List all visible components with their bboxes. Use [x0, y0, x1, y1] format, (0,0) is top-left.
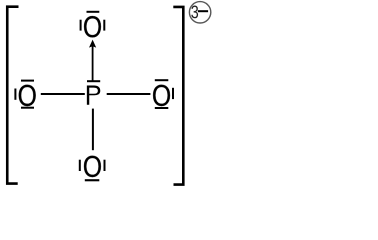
bond P to O-left	[41, 93, 85, 95]
atom O right	[153, 85, 170, 106]
arrow tail crossbar	[87, 80, 100, 82]
charge minus sign	[198, 10, 208, 12]
left bracket	[7, 7, 18, 184]
lone pair O-left top bar	[21, 80, 34, 82]
bond P to O-right	[107, 93, 151, 95]
lone pair O-left left bar	[14, 89, 16, 100]
lone pair O-top right bar	[103, 20, 105, 31]
lone pair O-bottom right bar	[104, 160, 106, 171]
lone pair O-right right bar	[172, 88, 174, 99]
lone pair O-right bottom bar	[155, 107, 169, 109]
bond P to O-bottom	[92, 109, 94, 151]
right bracket	[173, 7, 183, 185]
atom O bottom	[84, 156, 101, 177]
arrow head	[89, 40, 96, 48]
lone pair O-top upper bar	[87, 11, 100, 13]
lone pair O-top left bar	[80, 20, 82, 31]
atom O left	[19, 85, 36, 106]
lone pair O-left bottom bar	[21, 107, 34, 109]
lone pair O-bottom bottom bar	[85, 179, 100, 181]
lone pair O-bottom left bar	[79, 160, 81, 171]
atom O top	[84, 16, 101, 37]
charge circle 3-	[189, 2, 210, 23]
atom P (central)	[87, 86, 100, 105]
coordinate-bond arrow P to O-top: shaft	[92, 46, 94, 81]
charge digit 3	[191, 6, 198, 19]
lone pair O-right top bar	[155, 79, 169, 81]
